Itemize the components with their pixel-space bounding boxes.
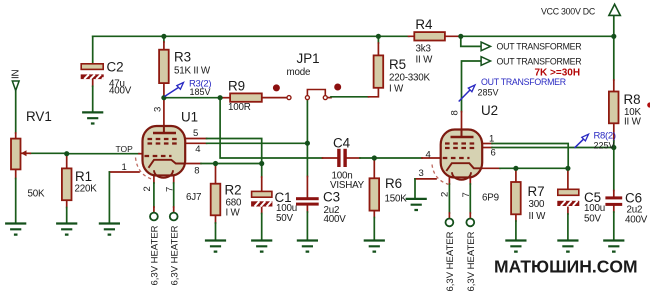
wire R7 bottom to ground bbox=[515, 214, 517, 221]
resistor R8 bbox=[609, 92, 642, 128]
wire R5 top stub bbox=[377, 36, 379, 43]
power VCC 300V DC bbox=[541, 4, 620, 16]
wire U2 pin1 bbox=[482, 143, 492, 145]
ground U1 pin1 bbox=[99, 224, 120, 235]
svg-text:6,3V HEATER: 6,3V HEATER bbox=[150, 225, 161, 285]
U2 pin numbers bbox=[419, 110, 496, 197]
svg-text:400V: 400V bbox=[109, 86, 132, 97]
resistor R5 bbox=[374, 55, 431, 94]
svg-text:400V: 400V bbox=[625, 215, 648, 226]
wire plate node down to C4 bbox=[220, 98, 322, 158]
svg-text:400V: 400V bbox=[324, 214, 347, 225]
wire U1 pin4 screen bbox=[185, 142, 206, 144]
ground U2 pin3 bbox=[406, 199, 427, 210]
node junction dots bbox=[64, 34, 616, 171]
wire C2 top drop bbox=[92, 36, 94, 63]
svg-text:100R: 100R bbox=[228, 102, 251, 113]
capacitor C4 film bbox=[330, 136, 365, 192]
svg-text:II W: II W bbox=[624, 117, 642, 128]
wire R7 top stub bbox=[515, 168, 517, 182]
svg-text:8: 8 bbox=[450, 110, 461, 115]
wire C5 top stub bbox=[567, 168, 569, 189]
svg-text:U2: U2 bbox=[481, 103, 498, 118]
svg-text:7: 7 bbox=[165, 187, 176, 192]
wire R4 stubs bbox=[409, 35, 461, 37]
resistor R9 bbox=[228, 79, 262, 114]
svg-text:6,3V HEATER: 6,3V HEATER bbox=[169, 225, 180, 285]
resistor R3 bbox=[159, 50, 211, 84]
U1 shield dashed arc bbox=[136, 158, 155, 180]
svg-text:5: 5 bbox=[193, 128, 198, 139]
wire U1 heater pin7 bbox=[173, 175, 175, 183]
wire out transformer 1 branch bbox=[461, 36, 481, 46]
resistor R7 bbox=[511, 182, 546, 222]
U1 heater terminal pin2 bbox=[150, 213, 158, 221]
svg-text:II W: II W bbox=[416, 55, 434, 66]
wire R2 bottom to ground bbox=[215, 215, 217, 223]
ground C3 bbox=[297, 241, 318, 252]
wire U2 pin3 to ground bbox=[415, 178, 436, 180]
connector OUT TRANSFORMER 1 bbox=[481, 41, 581, 51]
ground C5 bbox=[557, 241, 578, 252]
wire U2 heater pin7 bbox=[469, 178, 471, 185]
wire C3 bottom to ground bbox=[306, 206, 308, 212]
wire VCC top bus bbox=[93, 35, 614, 37]
svg-text:1: 1 bbox=[489, 134, 494, 145]
svg-text:6,3V HEATER: 6,3V HEATER bbox=[445, 231, 456, 291]
tube U2 (6P9) body bbox=[441, 103, 499, 204]
svg-text:300: 300 bbox=[529, 199, 545, 210]
svg-text:I W: I W bbox=[389, 84, 404, 95]
svg-text:VISHAY: VISHAY bbox=[330, 180, 365, 191]
U2 shield dashed arc bbox=[432, 165, 451, 186]
svg-text:220K: 220K bbox=[75, 184, 98, 195]
capacitor C3 film bbox=[296, 190, 346, 226]
svg-text:100u: 100u bbox=[584, 203, 605, 214]
wire C6 bottom to ground bbox=[613, 206, 615, 212]
ground R2 bbox=[205, 241, 226, 252]
svg-text:R6: R6 bbox=[385, 176, 402, 191]
wire RV1 bottom to ground bbox=[15, 169, 17, 178]
resistor R2 bbox=[211, 183, 242, 219]
wire C4 right to R6 node bbox=[347, 157, 360, 159]
U1 heater terminal pin7 bbox=[170, 213, 178, 221]
wire C1 bottom to ground bbox=[261, 207, 263, 214]
tube U1 (6J7) body bbox=[143, 110, 202, 204]
svg-text:OUT TRANSFORMER: OUT TRANSFORMER bbox=[497, 41, 582, 51]
probe R3(2) 185V bbox=[165, 79, 212, 98]
wire plate node to R9 junction bbox=[164, 97, 220, 99]
capacitor C6 film bbox=[605, 191, 647, 226]
svg-text:R3: R3 bbox=[174, 50, 191, 65]
svg-text:R1: R1 bbox=[75, 169, 92, 184]
svg-text:185V: 185V bbox=[190, 87, 211, 97]
svg-text:OUT TRANSFORMER: OUT TRANSFORMER bbox=[497, 57, 582, 67]
svg-text:6J7: 6J7 bbox=[186, 192, 201, 203]
svg-text:50K: 50K bbox=[28, 189, 45, 200]
svg-text:R4: R4 bbox=[415, 17, 433, 32]
svg-text:I W: I W bbox=[226, 208, 241, 219]
wire U1 TOP grid from RV1 bbox=[67, 153, 139, 155]
wire U1 pin3 plate drop bbox=[163, 98, 165, 126]
svg-text:6P9: 6P9 bbox=[482, 193, 499, 204]
svg-text:8: 8 bbox=[194, 165, 199, 176]
svg-text:50V: 50V bbox=[584, 214, 601, 225]
wire C5 bottom to ground bbox=[567, 207, 569, 214]
resistor R4 bbox=[414, 17, 445, 66]
wire JP1 pin2 down to screen node bbox=[306, 99, 308, 176]
svg-text:JP1: JP1 bbox=[297, 51, 320, 66]
U1 pin numbers bbox=[122, 107, 201, 192]
svg-text:3: 3 bbox=[419, 168, 424, 179]
wire R6 bottom to ground bbox=[373, 211, 375, 218]
wire U2 pin6 to 225V node bbox=[482, 147, 492, 149]
wire R1 top stub bbox=[66, 154, 68, 169]
potentiometer RV1 bbox=[11, 109, 52, 200]
capacitor C5 electrolytic bbox=[557, 189, 605, 224]
svg-text:IN: IN bbox=[11, 69, 22, 79]
svg-text:50V: 50V bbox=[276, 213, 293, 224]
svg-text:6,3V HEATER: 6,3V HEATER bbox=[466, 231, 477, 291]
U2 heater terminal pin7 bbox=[466, 219, 474, 227]
wire R9 left stub bbox=[220, 97, 230, 99]
wire R1 bottom to ground bbox=[66, 200, 68, 207]
wire VCC drop to R8 bbox=[613, 15, 615, 80]
wire U2 plate to out transformer 2 bbox=[462, 61, 482, 112]
svg-text:R2: R2 bbox=[225, 183, 242, 198]
connector OUT TRANSFORMER 2 bbox=[481, 57, 581, 67]
resistor R1 bbox=[62, 168, 97, 200]
ground C6 bbox=[603, 241, 624, 252]
svg-text:mode: mode bbox=[287, 67, 311, 78]
svg-text:285V: 285V bbox=[478, 88, 499, 98]
wire R3 bottom stub bbox=[163, 83, 165, 98]
svg-text:6: 6 bbox=[491, 148, 496, 159]
connector IN bbox=[11, 69, 22, 90]
wire RV1 input bbox=[15, 91, 17, 134]
svg-text:R5: R5 bbox=[389, 57, 406, 72]
svg-text:C3: C3 bbox=[323, 190, 340, 205]
svg-text:U1: U1 bbox=[181, 110, 198, 125]
svg-text:220-330K: 220-330K bbox=[389, 73, 431, 84]
clipped red probe mark at right edge bbox=[647, 102, 650, 107]
wire U1 pin1 to ground bbox=[109, 171, 139, 173]
svg-text:RV1: RV1 bbox=[26, 109, 52, 124]
resistor R6 bbox=[370, 176, 408, 211]
probe 285V bbox=[459, 85, 499, 102]
wire U2 pin5 cathode bbox=[482, 167, 500, 169]
svg-text:3k3: 3k3 bbox=[416, 44, 432, 55]
svg-text:C2: C2 bbox=[107, 60, 124, 75]
wire R6 node to U2 pin4 bbox=[374, 157, 422, 159]
wire R8 bottom to 225V node bbox=[613, 123, 615, 141]
svg-text:R8: R8 bbox=[624, 92, 641, 107]
ground R1 bbox=[56, 224, 77, 235]
wire U1 pin8 cathode bbox=[185, 163, 201, 165]
probe R8(2) 225V bbox=[575, 131, 616, 151]
svg-text:VCC 300V DC: VCC 300V DC bbox=[541, 7, 596, 17]
svg-text:OUT TRANSFORMER: OUT TRANSFORMER bbox=[481, 77, 566, 87]
capacitor C1 electrolytic bbox=[251, 190, 297, 224]
wire C6 top stub from 225V node bbox=[613, 148, 615, 191]
ground R6 bbox=[364, 241, 385, 252]
wire R9 right stub to JP1 pin1 bbox=[262, 97, 287, 99]
svg-text:C6: C6 bbox=[625, 191, 642, 206]
wire R6 top stub bbox=[373, 158, 375, 178]
U2 heater terminal pin2 bbox=[446, 219, 454, 227]
svg-text:51K II W: 51K II W bbox=[174, 66, 211, 77]
wire U1 pin5 bbox=[185, 138, 206, 140]
svg-text:4: 4 bbox=[426, 149, 431, 160]
wire R2 top stub bbox=[215, 164, 217, 184]
wire R3 top stub bbox=[163, 36, 165, 42]
svg-text:4: 4 bbox=[195, 144, 200, 155]
wire C2 bottom to ground bbox=[92, 79, 94, 86]
wire C1 top stub bbox=[261, 164, 263, 178]
svg-text:МАТЮШИН.COM: МАТЮШИН.COM bbox=[494, 256, 638, 276]
ground R7 bbox=[505, 241, 526, 252]
ground RV1 bbox=[5, 224, 26, 235]
svg-text:TOP: TOP bbox=[116, 144, 134, 154]
svg-text:7: 7 bbox=[461, 192, 472, 197]
ground C1 bbox=[251, 241, 272, 252]
wire U1 heater pin2 bbox=[153, 175, 155, 183]
capacitor C2 electrolytic bbox=[81, 60, 132, 97]
svg-text:R9: R9 bbox=[228, 79, 245, 94]
svg-text:3: 3 bbox=[153, 107, 164, 112]
svg-text:2: 2 bbox=[440, 192, 451, 197]
svg-text:1: 1 bbox=[122, 162, 127, 173]
svg-text:II W: II W bbox=[529, 211, 547, 222]
wire JP1 pin3 to R5 bottom bbox=[327, 97, 331, 99]
ground C2 bbox=[82, 112, 103, 123]
jumper JP1 bbox=[273, 51, 341, 100]
svg-text:C4: C4 bbox=[333, 136, 351, 151]
svg-text:2: 2 bbox=[142, 186, 153, 191]
svg-text:225V: 225V bbox=[594, 140, 615, 150]
svg-text:150K: 150K bbox=[385, 194, 408, 205]
wire U2 heater pin2 bbox=[448, 178, 450, 185]
svg-text:R7: R7 bbox=[528, 184, 545, 199]
wire RV1 wiper bbox=[30, 152, 66, 154]
